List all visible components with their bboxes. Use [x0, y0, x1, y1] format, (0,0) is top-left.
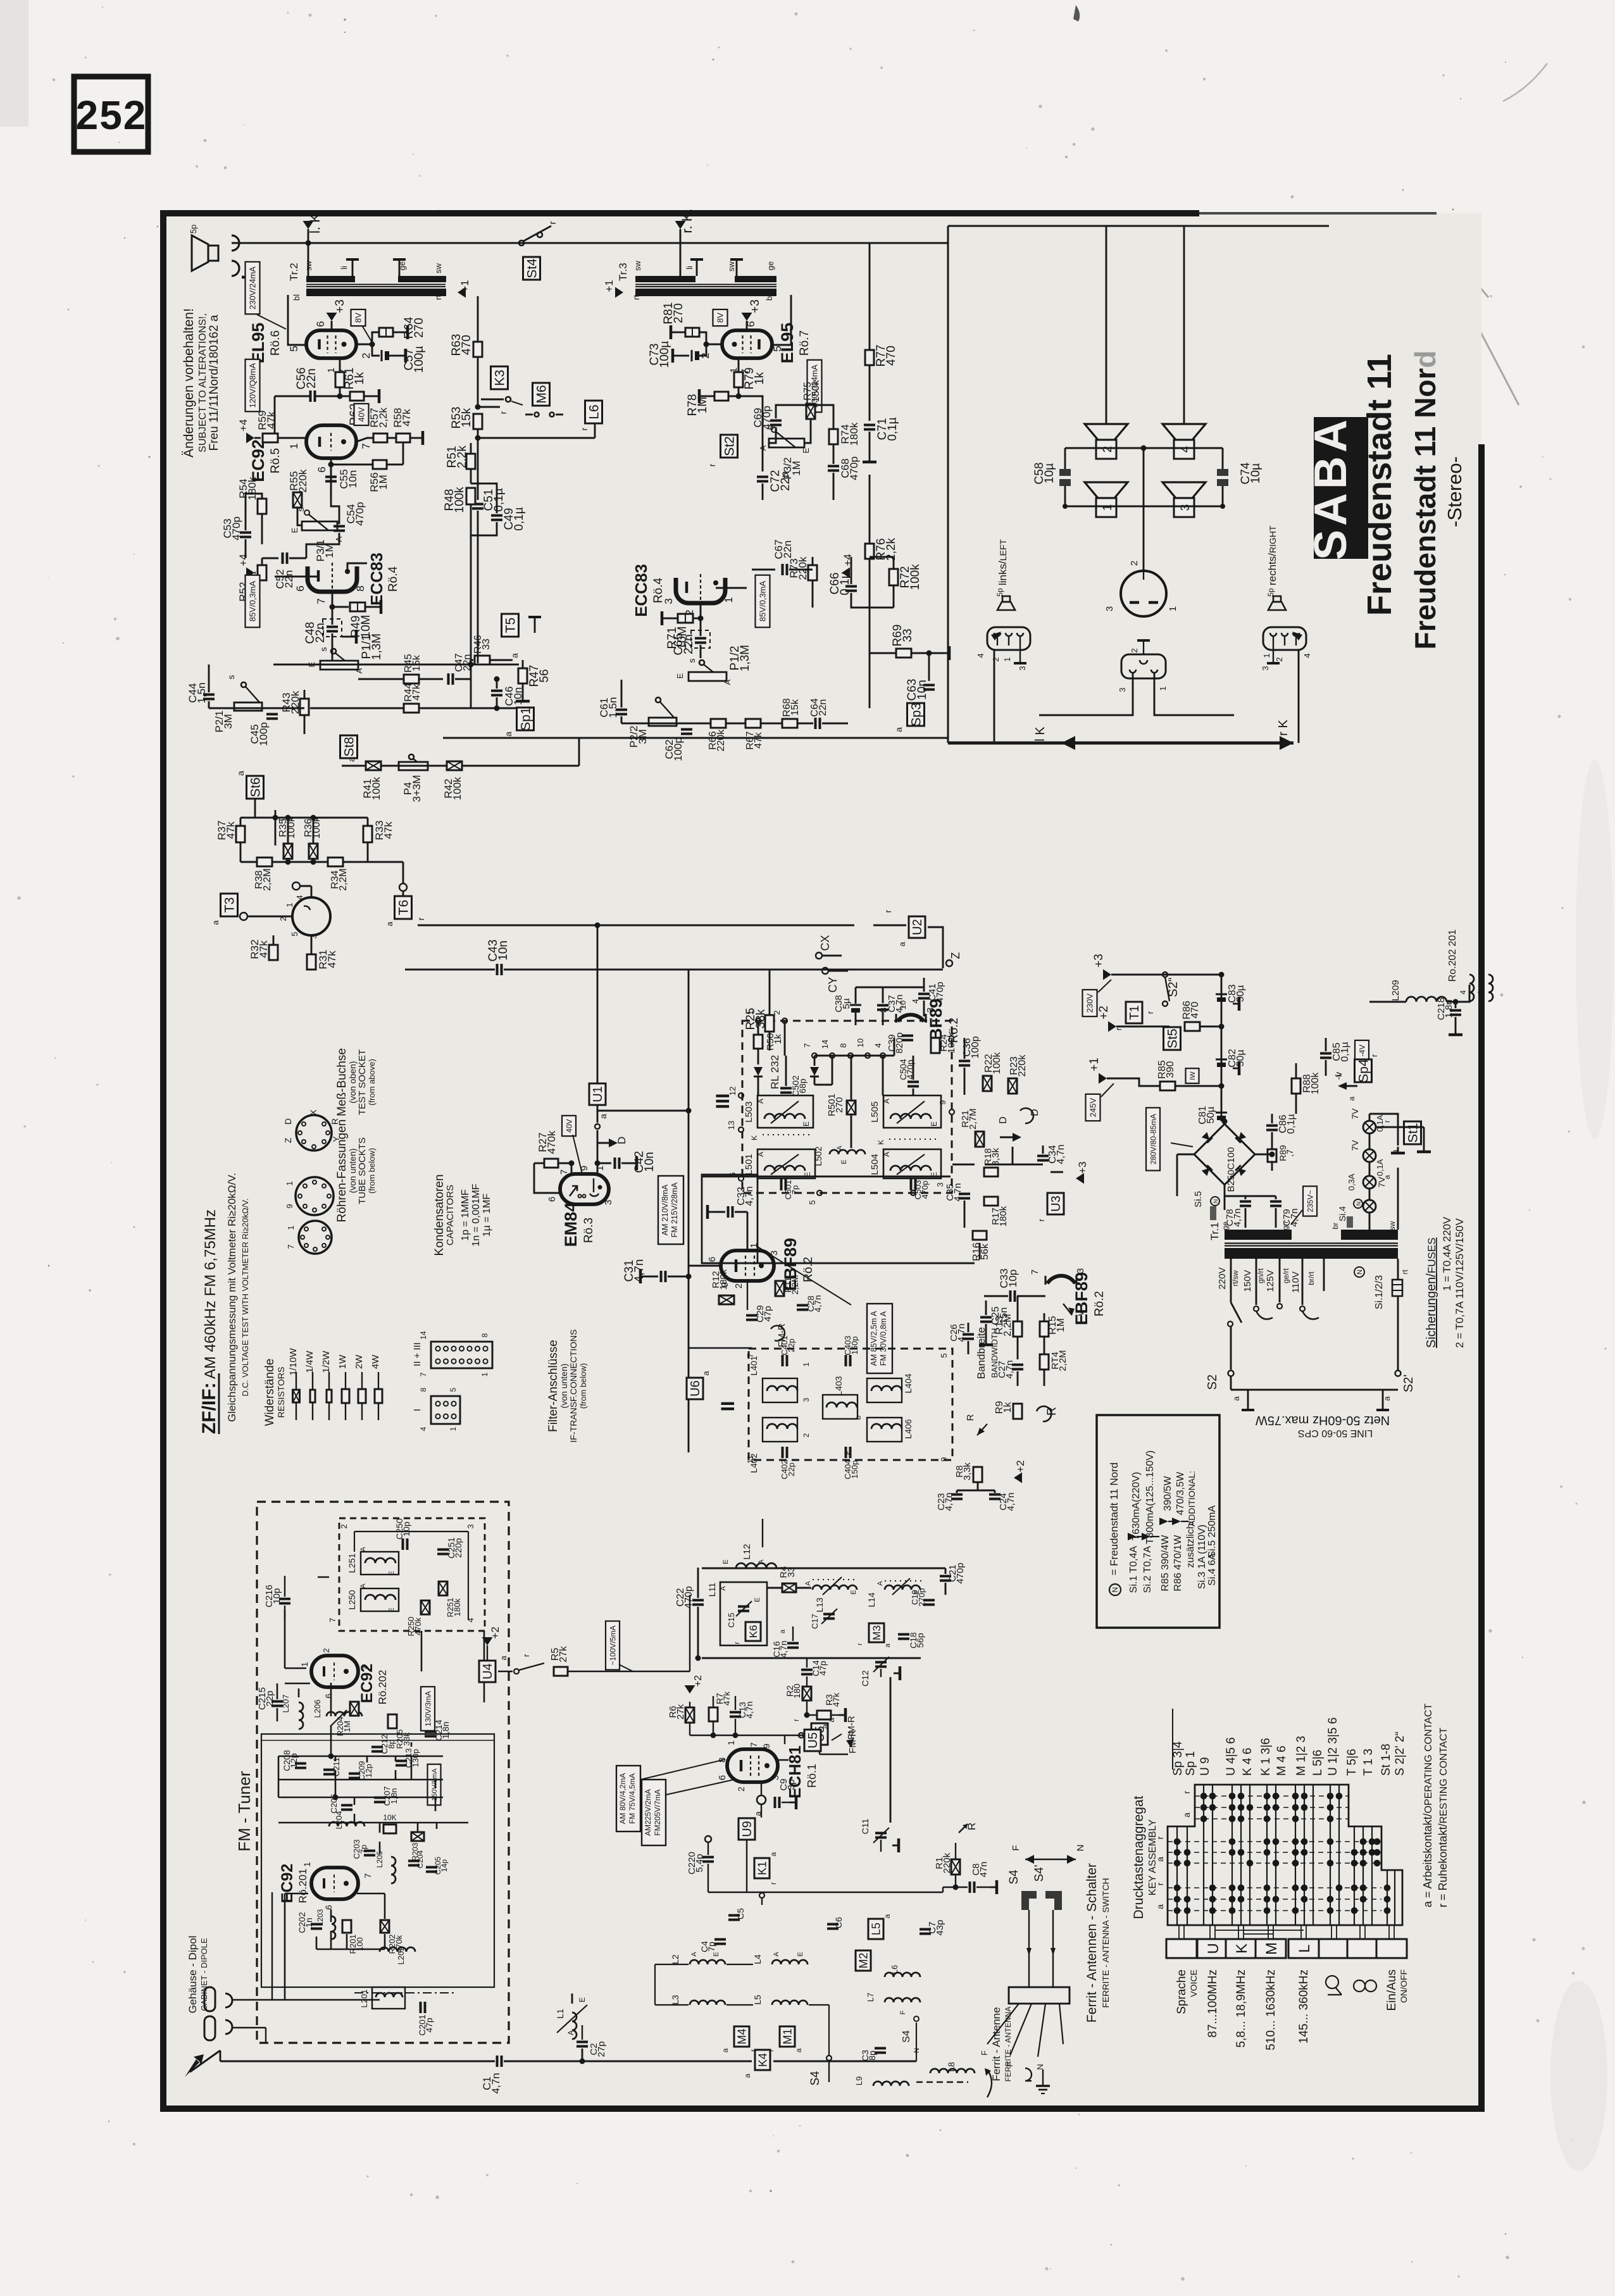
legend filter connection block II+III: [431, 1342, 492, 1368]
svg-text:a: a: [743, 2073, 752, 2078]
svg-text:rt: rt: [433, 295, 443, 300]
svg-text:C47p: C47p: [699, 1941, 716, 1952]
capacitor C9 3p: [757, 1795, 766, 1804]
wire: [916, 2044, 917, 2061]
svg-text:r: r: [1369, 1054, 1379, 1057]
svg-text:R42100k: R42100k: [442, 777, 463, 800]
svg-text:a: a: [779, 1629, 787, 1633]
resistor R25 33k: [765, 1015, 774, 1032]
svg-text:9: 9: [285, 1204, 294, 1208]
svg-text:C73100µ: C73100µ: [648, 341, 671, 368]
svg-text:Sp1: Sp1: [519, 707, 533, 730]
voltage box 230V/24mA: [807, 360, 822, 413]
svg-text:+3: +3: [334, 299, 347, 313]
svg-text:Rö.4: Rö.4: [387, 566, 400, 592]
svg-text:C4210n: C4210n: [633, 1151, 656, 1173]
resistor R76 2,2k: [869, 475, 871, 544]
tube ECH81 Ro.1: [727, 1749, 778, 1782]
coil L204: [329, 1822, 365, 1826]
pilot lamp 2: [1363, 1149, 1376, 1162]
capacitor C81 50u: [1216, 1112, 1227, 1114]
svg-text:R72100k: R72100k: [899, 564, 922, 590]
label box M1: [780, 2026, 795, 2047]
svg-text:Rö.1: Rö.1: [806, 1764, 818, 1788]
terminal +3: [742, 313, 752, 321]
transformer Tr.1 secondary bar left: [1225, 1230, 1292, 1240]
svg-text:U9: U9: [740, 1821, 754, 1837]
svg-text:4: 4: [466, 1618, 475, 1622]
wire: [254, 799, 256, 818]
AM bandfilter top wire: [702, 1568, 945, 1569]
capacitor C35 4,7n: [959, 1193, 970, 1195]
svg-text:5: 5: [449, 1387, 458, 1392]
potentiometer P2/2 3M: [656, 697, 661, 702]
svg-text:E: E: [722, 1559, 730, 1564]
wire: [273, 935, 275, 945]
svg-text:C19270p: C19270p: [910, 1588, 926, 1607]
coil L206: [327, 1712, 362, 1716]
voltage box AM80V FM75V: [616, 1766, 640, 1831]
speaker box left edge: [947, 226, 949, 743]
capacitor C208 12p: [295, 1763, 306, 1765]
svg-text:br/rt: br/rt: [1307, 1271, 1316, 1285]
coil L503 box: [758, 1095, 813, 1128]
svg-text:S 2|2' 2“: S 2|2' 2“: [1394, 1731, 1407, 1776]
svg-text:T 1 3: T 1 3: [1362, 1749, 1375, 1776]
svg-text:4: 4: [1302, 653, 1312, 658]
capacitor C220 5,4p: [705, 1836, 711, 1842]
svg-text:L209: L209: [1390, 980, 1401, 1001]
svg-text:7: 7: [363, 1873, 373, 1878]
svg-text:40V: 40V: [357, 407, 366, 421]
capacitor C82 50u: [1216, 1059, 1227, 1061]
coil L401: [763, 1378, 797, 1402]
resistor R204 1M: [350, 1702, 359, 1716]
transformer Tr.1 secondary bar right: [1341, 1230, 1398, 1240]
svg-text:4: 4: [1459, 990, 1468, 994]
svg-text:R561M: R561M: [368, 472, 389, 492]
svg-text:RESISTORS: RESISTORS: [276, 1367, 286, 1418]
svg-text:U 1|2 3|5 6: U 1|2 3|5 6: [1326, 1718, 1340, 1776]
capacitor C1 4,7n: [496, 2056, 499, 2067]
capacitor C72 22n: [739, 396, 763, 471]
svg-text:L7: L7: [866, 1993, 875, 2002]
svg-text:7: 7: [360, 443, 372, 449]
resistor R3 47k: [817, 1711, 831, 1719]
wire anode ECC83 left: [347, 563, 367, 571]
svg-text:6: 6: [707, 1257, 718, 1262]
svg-text:a: a: [883, 1914, 892, 1918]
wire: [308, 275, 309, 277]
wire: [1369, 1001, 1406, 1003]
resistor R2 180: [802, 1687, 811, 1700]
resistor R35 100k: [284, 844, 292, 859]
transformer Tr.2 lamination lines: [306, 284, 446, 285]
capacitor C251 220p: [437, 1549, 449, 1551]
resistor R86 470: [1185, 1022, 1200, 1031]
capacitor C206: [341, 1804, 352, 1807]
svg-text:R86 470/1W: R86 470/1W: [1173, 1535, 1183, 1592]
mains terminal stubs: [1247, 1390, 1249, 1410]
svg-text:r: r: [1037, 1218, 1046, 1221]
svg-text:ADDITIONAL:: ADDITIONAL:: [1187, 1471, 1197, 1526]
resistor R73 220k: [808, 565, 817, 580]
ferrite rod: [916, 2081, 968, 2083]
svg-text:3: 3: [603, 1200, 614, 1205]
wire long r-line: [418, 925, 854, 927]
svg-text:13: 13: [726, 1121, 736, 1130]
capacitor C83 50u: [1216, 994, 1227, 995]
svg-text:+1: +1: [459, 280, 471, 292]
svg-text:+2: +2: [1014, 1460, 1026, 1472]
loudspeaker 4: [1163, 424, 1206, 440]
svg-text:C2947p: C2947p: [755, 1305, 773, 1323]
scan smudge right-mid: [1576, 759, 1614, 1139]
svg-text:R347k: R347k: [824, 1692, 841, 1707]
svg-text:U6: U6: [689, 1380, 702, 1397]
capacitor C503 470p: [910, 1179, 913, 1190]
tube EBF89 Ro.2 third: [1045, 1276, 1076, 1285]
svg-text:-Stereo-: -Stereo-: [1444, 456, 1466, 527]
svg-text:4: 4: [1179, 446, 1192, 452]
scan scratch top-right: [1449, 266, 1519, 405]
svg-text:6: 6: [547, 1197, 558, 1202]
svg-text:220V: 220V: [1217, 1267, 1228, 1289]
svg-text:C504470p: C504470p: [898, 1059, 915, 1080]
voltage box 120V/Q8mA: [246, 359, 260, 412]
svg-text:R2180: R2180: [785, 1683, 802, 1699]
svg-text:R3147k: R3147k: [317, 949, 338, 969]
wire U1 to tube: [597, 1105, 599, 1123]
svg-text:L250: L250: [347, 1590, 357, 1609]
svg-text:S4: S4: [1007, 1869, 1021, 1885]
speaker coupling arcs: [232, 235, 239, 251]
plug links/LEFT: [987, 627, 1030, 650]
svg-text:Ein/Aus: Ein/Aus: [1385, 1969, 1399, 2011]
svg-text:7: 7: [1030, 1270, 1040, 1275]
terminal +3: [327, 313, 337, 321]
screen box C32: [702, 1175, 758, 1263]
resistor R31 47k: [307, 954, 316, 970]
coil L406: [867, 1418, 902, 1442]
svg-text:3: 3: [1476, 990, 1485, 994]
svg-text:5: 5: [939, 1353, 949, 1357]
svg-text:ECC83: ECC83: [367, 552, 386, 606]
svg-text:U3: U3: [1049, 1195, 1063, 1212]
svg-text:St 1-8: St 1-8: [1380, 1744, 1393, 1776]
svg-text:RT42,2M: RT42,2M: [1050, 1350, 1068, 1371]
wire plug to bus right: [1298, 650, 1300, 743]
capacitor C250 10p: [402, 1538, 404, 1550]
svg-text:Netz 50-60Hz max.75W: Netz 50-60Hz max.75W: [1256, 1413, 1390, 1427]
svg-text:-4V: -4V: [1357, 1045, 1366, 1057]
wire III pin row: [814, 1055, 894, 1057]
svg-text:A: A: [882, 1152, 891, 1157]
svg-text:T1: T1: [1128, 1005, 1142, 1020]
tube EL95 Ro.6: [306, 330, 356, 358]
potentiometer P4 3+3M: [409, 754, 414, 759]
capacitor C55 10n: [330, 458, 332, 471]
speaker box top edge: [948, 225, 1329, 227]
capacitor C66 0,1u: [845, 585, 857, 588]
svg-text:zusätzlich/: zusätzlich/: [1185, 1520, 1196, 1568]
svg-text:L6: L6: [587, 404, 602, 419]
svg-text:C403150p: C403150p: [843, 1335, 859, 1355]
svg-text:C211: C211: [332, 1757, 341, 1776]
capacitor C73 100u: [699, 344, 706, 356]
transformer Tr.1 laminations: [1225, 1242, 1398, 1244]
label box K3: [491, 366, 508, 389]
svg-text:L404: L404: [903, 1373, 913, 1393]
svg-text:85V/0,3mA: 85V/0,3mA: [248, 581, 258, 622]
coil L250: [361, 1588, 399, 1611]
resistor R201 100: [342, 1920, 351, 1933]
wire: [873, 925, 906, 927]
wire EL95 pin2 right: [706, 344, 722, 346]
capacitor C5: [728, 1914, 740, 1917]
wire III lower bus: [702, 1263, 975, 1264]
svg-text:L11: L11: [707, 1583, 717, 1597]
resistor R5 27k: [554, 1667, 568, 1676]
svg-text:R212,7M: R212,7M: [960, 1108, 978, 1129]
svg-text:S4: S4: [901, 2030, 912, 2043]
svg-text:Freu 11/11Nord/180162 a: Freu 11/11Nord/180162 a: [208, 315, 221, 451]
resistor R23 220k: [1008, 1078, 1017, 1094]
svg-text:0,1A: 0,1A: [1375, 1159, 1385, 1176]
capacitor C64 22n: [814, 718, 817, 729]
resistor R89 ,7: [1268, 1149, 1276, 1162]
svg-text:A: A: [773, 1952, 780, 1957]
plug rechts/RIGHT: [1263, 627, 1306, 650]
ground: [342, 636, 350, 638]
resistor R4 33: [782, 1583, 796, 1592]
tube EBF89 Ro.2 diode arc: [897, 1014, 924, 1021]
legend tube socket circle 2: [296, 1177, 334, 1215]
svg-text:10: 10: [856, 1039, 865, 1047]
resistor 10k: [383, 1825, 396, 1833]
svg-text:U5: U5: [806, 1732, 820, 1749]
svg-text:Ferrit - Antennen - Schalter: Ferrit - Antennen - Schalter: [1085, 1863, 1099, 2023]
page number box 252: [74, 77, 148, 152]
svg-text:= Freudenstadt 11 Nord: = Freudenstadt 11 Nord: [1108, 1463, 1120, 1576]
coil L202: [380, 1947, 415, 1952]
capacitor C74 10u hatched: [1217, 469, 1228, 476]
svg-text:L4: L4: [752, 1954, 763, 1964]
svg-text:9: 9: [938, 1100, 947, 1104]
voltage box 230V/24mA: [246, 262, 260, 315]
tube EC92 Ro.5: [306, 425, 356, 458]
coil L4: [772, 1960, 807, 1964]
svg-text:C4310n: C4310n: [487, 940, 510, 962]
outer schematic border frame: [163, 213, 1481, 2109]
svg-text:F: F: [1011, 1845, 1021, 1850]
wire: [689, 1110, 742, 1111]
primary tap wires: [1230, 1259, 1232, 1302]
capacitor C37 4,7n: [877, 1004, 889, 1007]
svg-text:N: N: [1213, 1199, 1219, 1204]
voltage box 130V/3mA: [421, 1687, 435, 1731]
svg-text:r: r: [416, 917, 426, 920]
svg-text:A: A: [690, 1952, 698, 1957]
svg-text:2: 2: [733, 1283, 744, 1288]
svg-text:M 4 6: M 4 6: [1275, 1745, 1288, 1776]
svg-text:K4: K4: [756, 2053, 769, 2067]
svg-text:252: 252: [76, 92, 147, 138]
node CX: [816, 952, 822, 959]
svg-text:1: 1: [286, 1225, 296, 1230]
svg-text:390/5W: 390/5W: [1163, 1476, 1173, 1511]
svg-text:E: E: [850, 1590, 857, 1594]
switch S2'': [1163, 972, 1168, 977]
svg-text:l K: l K: [1033, 727, 1047, 742]
svg-text:RL 232: RL 232: [769, 1055, 781, 1089]
svg-text:K 4 6: K 4 6: [1241, 1748, 1254, 1776]
svg-text:1W: 1W: [337, 1354, 348, 1369]
resistor R69 33: [896, 649, 911, 658]
svg-text:A: A: [876, 1581, 884, 1586]
wire: [1143, 448, 1145, 571]
capacitor C501 7p: [780, 1179, 783, 1190]
svg-text:145... 360kHz: 145... 360kHz: [1297, 1969, 1311, 2043]
svg-text:F: F: [1005, 2062, 1014, 2067]
wire speaker row upper: [1065, 447, 1223, 449]
legend tube socket circle 1: [296, 1115, 332, 1151]
capacitor C24 4,7n: [989, 1494, 1001, 1496]
fuse Si.1/2/3 body: [1392, 1280, 1402, 1296]
capacitor C201 47p: [420, 2002, 422, 2013]
switch St4: [519, 240, 524, 246]
svg-text:R1656k: R1656k: [971, 1242, 990, 1261]
svg-text:5: 5: [807, 1200, 817, 1204]
capacitor C85 0,1u: [1320, 1052, 1331, 1055]
svg-text:E: E: [388, 1571, 396, 1575]
loudspeaker 1: [1085, 482, 1128, 498]
svg-text:2: 2: [802, 1433, 811, 1437]
capacitor C32 4,7n: [708, 1211, 714, 1213]
label box K1: [754, 1858, 770, 1878]
svg-text:1/4W: 1/4W: [304, 1351, 315, 1373]
svg-text:L5: L5: [752, 1995, 763, 2005]
svg-text:1: 1: [1168, 606, 1178, 611]
voltage box 85V/0,3mA right: [756, 575, 770, 628]
wire: [689, 1964, 690, 2000]
capacitor C19 270p: [923, 1599, 935, 1602]
key assembly contact dots: [1174, 1793, 1391, 1914]
wire: [498, 1671, 513, 1672]
coil L12: [736, 1563, 776, 1568]
resistor R68 15k: [782, 719, 797, 728]
node Z: [946, 960, 952, 966]
svg-text:R41100k: R41100k: [361, 777, 382, 800]
svg-text:li: li: [685, 266, 694, 270]
svg-text:2W: 2W: [354, 1354, 365, 1369]
svg-text:a: a: [897, 942, 907, 947]
svg-text:C4822n: C4822n: [304, 622, 327, 644]
wire a-line to bus: [597, 1110, 689, 1112]
svg-text:C710,1µ: C710,1µ: [876, 417, 899, 440]
svg-text:Tr.3: Tr.3: [617, 263, 629, 281]
coil L8: [930, 2069, 975, 2073]
svg-text:Si.5: Si.5: [1193, 1191, 1204, 1207]
dashed box III: [742, 1021, 952, 1193]
label box L6: [585, 401, 602, 423]
svg-text:R73220k: R73220k: [788, 556, 809, 580]
svg-text:1: 1: [285, 1181, 294, 1185]
switch connector box: [1009, 1987, 1069, 2004]
label box U3: [1047, 1193, 1064, 1214]
svg-text:5p: 5p: [995, 588, 1004, 597]
svg-text:sw: sw: [433, 263, 443, 273]
capacitor C34 4,7n: [1037, 1155, 1049, 1157]
svg-text:s: s: [318, 647, 328, 652]
wire lamp top: [1369, 1114, 1398, 1145]
svg-text:l. K.: l. K.: [307, 209, 323, 234]
arrow R: [1037, 1406, 1051, 1421]
svg-text:5: 5: [288, 346, 300, 351]
svg-text:C2205,4p: C2205,4p: [687, 1852, 705, 1875]
svg-text:2: 2: [321, 1648, 331, 1652]
coil L1: [572, 2012, 577, 2039]
resistor R32 47k: [269, 945, 278, 960]
svg-text:R627k: R627k: [668, 1704, 686, 1719]
diode RL232 a: [754, 1067, 763, 1076]
svg-text:~100V/5mA: ~100V/5mA: [608, 1625, 617, 1665]
svg-text:EL95: EL95: [778, 323, 797, 364]
svg-text:R12180k: R12180k: [711, 1269, 729, 1290]
coil L201 box: [372, 1987, 405, 2009]
svg-text:sw: sw: [633, 260, 642, 271]
svg-text:R112,2M: R112,2M: [783, 1275, 800, 1294]
svg-text:Drucktastenaggregat: Drucktastenaggregat: [1132, 1795, 1146, 1919]
svg-text:C441,5n: C441,5n: [187, 682, 208, 703]
resistor R71 10M: [700, 603, 702, 618]
svg-text:ECC83: ECC83: [632, 564, 651, 617]
svg-text:Meß-Buchse: Meß-Buchse: [335, 1048, 349, 1116]
svg-text:L5: L5: [870, 1923, 882, 1935]
svg-text:8: 8: [480, 1333, 489, 1337]
transformer Tr.2 primary bar: [306, 289, 446, 296]
svg-text:R6815k: R6815k: [782, 698, 801, 716]
svg-text:14: 14: [419, 1331, 428, 1340]
svg-text:14: 14: [820, 1040, 830, 1049]
svg-text:a = Arbeitskontakt/OPERATING C: a = Arbeitskontakt/OPERATING CONTACT: [1421, 1704, 1434, 1907]
svg-text:470/3,5W: 470/3,5W: [1175, 1471, 1186, 1515]
svg-text:R4515k: R4515k: [403, 654, 422, 672]
resistor R88 100k: [1292, 1078, 1300, 1094]
wire: [952, 1164, 975, 1166]
svg-text:C68470p: C68470p: [839, 456, 860, 480]
key assembly contact rows: [1168, 1796, 1381, 1911]
wire speaker row lower: [1065, 506, 1223, 508]
wire: [342, 765, 366, 767]
svg-text:A: A: [758, 1559, 765, 1564]
svg-text:L501: L501: [744, 1154, 754, 1175]
svg-text:1: 1: [1101, 504, 1114, 511]
svg-text:C354,7n: C354,7n: [945, 1183, 963, 1201]
svg-text:N: N: [1111, 1587, 1119, 1593]
svg-text:130V/3mA: 130V/3mA: [423, 1691, 432, 1726]
svg-text:6: 6: [323, 1694, 334, 1699]
svg-text:3: 3: [1118, 687, 1127, 692]
resistor R33 47k: [363, 826, 372, 842]
label box T1: [1126, 1002, 1142, 1023]
svg-text:CX: CX: [819, 935, 832, 951]
svg-text:M1: M1: [781, 2028, 794, 2044]
svg-text:C274,7n: C274,7n: [997, 1360, 1015, 1378]
loudspeaker 2: [1085, 424, 1128, 440]
svg-text:(from below): (from below): [578, 1363, 588, 1409]
svg-text:A: A: [836, 1145, 844, 1151]
